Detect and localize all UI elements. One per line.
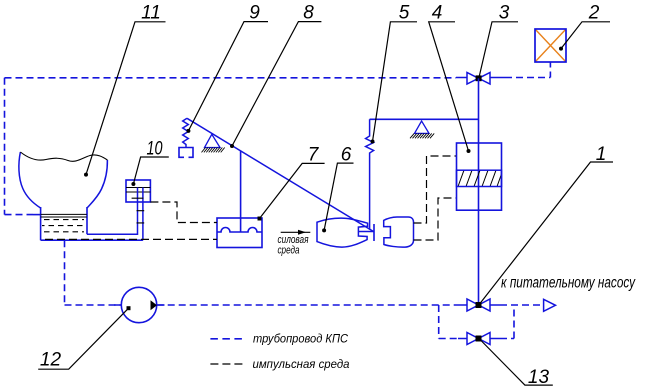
actuator 4 [457, 143, 502, 210]
label 2 [559, 3, 610, 51]
label 9 [186, 3, 268, 133]
label 12 [38, 306, 130, 371]
ticks on pipe [132, 198, 145, 223]
flapper of nozzle unit [359, 224, 375, 241]
svg-text:5: 5 [399, 3, 410, 24]
bowl 11 wavy rim [20, 152, 107, 161]
wire: dashed right of valve 3 [505, 77, 550, 79]
wire: dashed vertical up to device 2 [549, 62, 551, 77]
svg-text:12: 12 [40, 350, 62, 371]
tank bottom line [41, 239, 143, 241]
pipe from 10 down [87, 188, 143, 241]
label 5 [371, 3, 418, 144]
svg-text:10: 10 [147, 139, 163, 160]
bypass loop [439, 305, 514, 339]
wire: left vertical dashed [4, 78, 6, 215]
weight box of spring 9 [179, 148, 193, 158]
label 8 [230, 3, 321, 149]
svg-text:8: 8 [303, 3, 314, 24]
valve 3 [456, 73, 505, 85]
fulcrum for lever 5 [410, 121, 434, 138]
KPS dashed line tank to pump [64, 240, 66, 305]
liquid surface in tank [41, 214, 87, 217]
outlet arrow [544, 299, 556, 311]
pump 12 [121, 287, 157, 322]
svg-text:импульсная среда: импульсная среда [253, 359, 350, 371]
label 11 [84, 3, 166, 177]
wire: main KPS dashed line top horizontal left part [5, 62, 551, 214]
label 10 [131, 139, 168, 187]
impulse line jaw to actuator 4 upper [414, 156, 457, 223]
label 1 [479, 144, 613, 305]
label 4 [429, 3, 471, 154]
wire: dashed to outlet arrow [500, 304, 543, 306]
valve 13 (bypass) [458, 333, 500, 345]
svg-text:трубопровод КПС: трубопровод КПС [253, 334, 349, 346]
svg-text:3: 3 [499, 3, 510, 24]
legend impulse [210, 359, 349, 371]
svg-text:к питательному насосу: к питательному насосу [501, 275, 636, 292]
label 13 [480, 339, 553, 388]
arrow "силовая среда" [278, 230, 311, 257]
wire: solid stubs at pump [114, 304, 165, 306]
sensor 7 (box with membrane bumps) [217, 218, 262, 248]
wire: dashed into tank left wall [5, 214, 34, 216]
rod from lever 8 to sensor 7 [240, 151, 242, 232]
svg-text:2: 2 [588, 3, 600, 24]
KPS dashed line pump to valve 1 [157, 304, 458, 306]
wire: lever bar of regulator 5 [370, 118, 479, 120]
tank walls [41, 207, 87, 240]
fulcrum for lever 8 [202, 134, 225, 152]
device 2 (square with cross) [535, 29, 566, 62]
valve 3 center [476, 75, 482, 81]
label 6 [322, 144, 353, 232]
device 10 (damper) [87, 180, 150, 240]
label 3 [479, 3, 518, 79]
left jaw of nozzle 6 [317, 218, 368, 247]
svg-text:среда: среда [278, 244, 300, 256]
svg-text:6: 6 [341, 144, 352, 165]
right jaw of nozzle 6 [384, 217, 414, 247]
spring 9 with weight [183, 118, 189, 147]
impulse dashed line along tank bottom to sensor 7 [45, 238, 217, 240]
bowl 11 outline [19, 152, 41, 208]
impulse line jaw to actuator 4 lower [414, 198, 457, 240]
valve 1 (top) [458, 299, 500, 311]
svg-text:7: 7 [308, 144, 320, 165]
wire: main pipe vertical from valve 3 down [478, 78, 480, 305]
impulse line from 10 to 7 [150, 202, 217, 223]
spring 5 [366, 119, 374, 229]
svg-text:11: 11 [141, 3, 161, 24]
lever 8 (long diagonal) [187, 118, 374, 231]
label 7 [258, 144, 325, 220]
svg-text:4: 4 [432, 3, 443, 24]
legend KPS [210, 334, 348, 346]
liquid dashes [42, 220, 85, 232]
svg-text:9: 9 [249, 3, 260, 24]
